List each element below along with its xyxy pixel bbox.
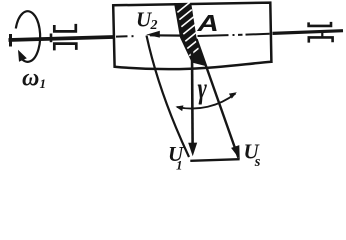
- rotation arrow ellipse omega1: [16, 11, 40, 62]
- svg-text:s: s: [254, 154, 261, 170]
- svg-text:γ: γ: [198, 71, 208, 105]
- centerline dot right: [233, 34, 235, 36]
- angle gamma arc: [177, 94, 236, 109]
- shaft 1 left end cap: [9, 34, 12, 47]
- vector U2 line: [150, 34, 184, 36]
- vector Us arrowhead: [231, 145, 240, 159]
- svg-text:1: 1: [176, 158, 183, 173]
- centerline dashes right inside: [198, 34, 229, 37]
- arc left arrowhead: [176, 105, 184, 111]
- svg-text:A: A: [196, 10, 218, 36]
- svg-text:1: 1: [40, 76, 47, 91]
- vector U1 line: [191, 50, 194, 144]
- arc right arrowhead: [229, 92, 237, 98]
- right coupling lower half: [309, 37, 333, 42]
- parallelogram base line: [190, 159, 239, 161]
- centerline short dash right: [238, 34, 243, 36]
- shaft 1 (input shaft, left): [9, 37, 114, 40]
- centerline dash left inside: [116, 35, 128, 37]
- right coupling tick: [321, 33, 323, 38]
- centerline dash to right edge: [246, 33, 270, 36]
- shaft 2 (output shaft, right): [273, 31, 344, 34]
- left coupling lower half: [54, 44, 76, 51]
- vector Us line: [197, 39, 239, 158]
- right coupling upper half: [309, 22, 331, 26]
- parallelogram left side (from U2 tip to U1 tip): [147, 36, 190, 158]
- housing rectangle: [113, 3, 271, 70]
- swash plate hatch stripes: [177, 2, 201, 55]
- vector U2 arrowhead: [146, 31, 160, 38]
- vector U1 arrowhead: [188, 143, 197, 157]
- left coupling upper half: [54, 24, 76, 32]
- centerline dot left inside: [132, 35, 134, 37]
- rotation arrowhead: [18, 50, 27, 62]
- coupling tick on left shaft: [50, 34, 53, 43]
- swash plate A (hatched band): [174, 3, 207, 66]
- svg-text:ω: ω: [22, 66, 39, 92]
- svg-text:2: 2: [150, 18, 158, 33]
